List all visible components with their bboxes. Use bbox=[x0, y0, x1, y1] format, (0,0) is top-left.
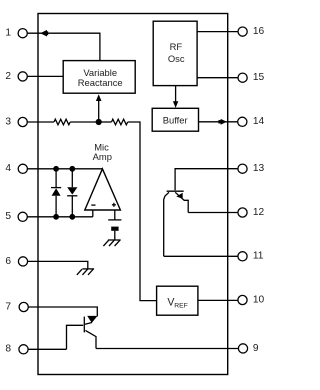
arrowhead to pin 14 bbox=[218, 119, 226, 125]
transistor Q2 base bar bbox=[83, 317, 85, 333]
wire VREF to pin 10 bbox=[198, 299, 238, 301]
wire pin 4 to op-amp output bbox=[27, 168, 102, 170]
pin 7 terminal bbox=[19, 302, 28, 311]
pin 11 terminal bbox=[238, 252, 247, 261]
RF oscillator block U3 bbox=[153, 21, 197, 85]
variable reactance block U1 bbox=[63, 61, 135, 94]
wire R1 to junction node A bbox=[70, 121, 99, 123]
wire RF osc to pin 15 bbox=[197, 77, 238, 79]
pin 14 terminal bbox=[238, 117, 247, 126]
pin 5 terminal bbox=[18, 212, 27, 221]
pin 10 terminal bbox=[238, 295, 247, 304]
junction node A dot bbox=[96, 119, 102, 125]
svg-text:5: 5 bbox=[5, 211, 11, 222]
svg-text:4: 4 bbox=[5, 163, 11, 174]
pin 6 terminal bbox=[18, 257, 27, 266]
svg-text:2: 2 bbox=[5, 71, 11, 82]
buffer block U4 bbox=[152, 108, 198, 131]
pin 1 terminal bbox=[18, 29, 27, 38]
svg-text:REF: REF bbox=[174, 302, 188, 309]
ground G2 bbox=[77, 269, 94, 275]
arrowhead into buffer bbox=[173, 101, 178, 108]
wire pin 13 to Q1 base bbox=[175, 169, 238, 191]
svg-text:Reactance: Reactance bbox=[78, 77, 123, 88]
ground G1 bbox=[103, 240, 120, 246]
wire RF osc to pin 16 bbox=[197, 31, 238, 33]
op-amp minus sign bbox=[91, 204, 95, 206]
wire Q2 collector to pin 9 bbox=[96, 348, 238, 350]
junction dot pin4/diode D1 bbox=[53, 166, 59, 172]
wire C1 to ground bbox=[114, 231, 116, 240]
svg-text:7: 7 bbox=[5, 301, 11, 312]
svg-text:9: 9 bbox=[253, 343, 259, 354]
wire pin 3 to resistor R1 bbox=[27, 121, 54, 123]
wire Q1 emitter to pin 12 bbox=[188, 212, 238, 214]
pin 2 terminal bbox=[18, 72, 27, 81]
svg-text:16: 16 bbox=[253, 26, 265, 37]
resistor R2 bbox=[112, 119, 128, 125]
svg-text:RF: RF bbox=[170, 41, 183, 52]
wire node A up to variable reactance bbox=[98, 100, 100, 123]
svg-text:10: 10 bbox=[253, 294, 265, 305]
op-amp non-inverting input lead bbox=[114, 210, 116, 220]
capacitor C1 top plate bbox=[108, 219, 121, 221]
pin 15 terminal bbox=[238, 73, 247, 82]
svg-text:3: 3 bbox=[5, 116, 11, 127]
transistor Q1 emitter lead bbox=[175, 192, 188, 212]
svg-text:Amp: Amp bbox=[93, 151, 112, 162]
svg-text:15: 15 bbox=[253, 72, 265, 83]
transistor Q1 base bar bbox=[167, 190, 184, 192]
pin 13 terminal bbox=[238, 164, 247, 173]
junction dot pin5/diode D1 bbox=[53, 214, 59, 220]
svg-text:Buffer: Buffer bbox=[163, 114, 188, 125]
wire node A to resistor R2 bbox=[99, 121, 112, 123]
transistor Q2 emitter arrowhead bbox=[87, 316, 97, 323]
wire pin 8 to Q2 base bbox=[28, 348, 66, 350]
pin 16 terminal bbox=[238, 27, 247, 36]
svg-text:Osc: Osc bbox=[168, 53, 185, 64]
svg-text:6: 6 bbox=[5, 256, 11, 267]
svg-text:12: 12 bbox=[253, 207, 265, 218]
svg-text:8: 8 bbox=[5, 344, 11, 355]
pin 12 terminal bbox=[238, 208, 247, 217]
IC package outline bbox=[38, 14, 228, 375]
wire variable reactance output to pin 1 bbox=[27, 33, 100, 60]
transistor Q1 emitter arrowhead bbox=[176, 193, 182, 199]
wire Q1 collector to pin 11 bbox=[164, 255, 238, 257]
mic amp label bbox=[93, 141, 112, 161]
wire RF osc to buffer bbox=[175, 86, 177, 102]
svg-text:1: 1 bbox=[5, 28, 11, 39]
op-amp plus sign bbox=[112, 203, 116, 207]
transistor Q2 collector lead bbox=[85, 330, 96, 348]
pin 3 terminal bbox=[18, 117, 27, 126]
VREF block U5 bbox=[157, 286, 198, 315]
transistor Q1 collector lead bbox=[164, 192, 169, 256]
junction dot pin5/diode D2 bbox=[69, 214, 75, 220]
junction dot pin4/diode D2 bbox=[69, 166, 75, 172]
svg-text:13: 13 bbox=[253, 163, 265, 174]
op-amp U2 mic amp triangle bbox=[85, 169, 121, 210]
wire pin 5 to op-amp inverting input bbox=[27, 216, 93, 218]
arrowhead pointing to pin 1 bbox=[40, 30, 48, 37]
transistor Q2 base lead bbox=[67, 325, 84, 349]
diode D1 bbox=[51, 169, 61, 217]
wire pin 2 to variable reactance bbox=[27, 75, 63, 77]
svg-text:14: 14 bbox=[253, 116, 265, 127]
transistor Q2 emitter lead bbox=[85, 323, 92, 325]
wire pin 6 to ground bbox=[28, 261, 88, 269]
resistor R1 bbox=[54, 119, 70, 125]
diode D2 bbox=[67, 169, 77, 217]
op-amp inverting input lead bbox=[92, 210, 94, 217]
capacitor C1 bottom plate bbox=[111, 227, 118, 231]
pin 9 terminal bbox=[238, 344, 247, 353]
wire R2 down to VREF block bbox=[128, 122, 157, 301]
pin 4 terminal bbox=[18, 164, 27, 173]
wire buffer to pin 14 bbox=[199, 121, 239, 123]
pin 8 terminal bbox=[19, 345, 28, 354]
arrowhead into variable reactance bottom bbox=[96, 94, 102, 101]
wire pin 7 to Q2 emitter bbox=[28, 307, 97, 317]
svg-text:11: 11 bbox=[253, 251, 264, 262]
